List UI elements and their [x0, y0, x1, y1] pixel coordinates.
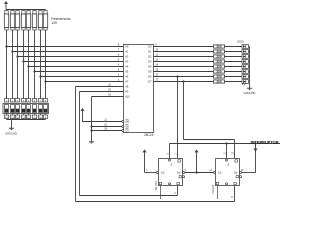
svg-text:D1: D1 — [148, 50, 152, 54]
power terminal VCC (resistor pack supply) — [4, 1, 8, 10]
LED D3 — [242, 55, 249, 59]
wire: net A5 column junction to U1 pin 3 — [33, 68, 123, 73]
resistor R2 220 (LED series) — [214, 50, 225, 54]
flip-flop U2 74LS74 — [154, 153, 185, 199]
svg-text:220: 220 — [216, 55, 221, 59]
wire: net A6 column junction to U1 pin 2 — [39, 73, 123, 78]
svg-text:D3: D3 — [148, 60, 152, 64]
svg-text:A2: A2 — [125, 55, 129, 59]
wire: U2 Sd / U3 Cd to VCC — [185, 150, 214, 174]
wire: DIP switch common rail to ground — [7, 120, 46, 129]
wire: column 3 resistor to DIP switch — [17, 30, 19, 99]
svg-text:OE: OE — [125, 125, 129, 129]
svg-text:220: 220 — [216, 45, 221, 49]
svg-text:D0: D0 — [148, 45, 152, 49]
wire: net D0 U1 pin 9 to R1 — [154, 44, 214, 47]
resistor RN1.5 10K pull-up — [26, 10, 30, 31]
wire: column 6 resistor to DIP switch — [34, 30, 36, 99]
svg-text:LEDS: LEDS — [237, 39, 244, 43]
DIP switch SW1 8-way — [3, 99, 49, 120]
wire: net A9 from U1 pin 22 down to U2 output — [80, 89, 178, 196]
LED D2 — [242, 50, 249, 54]
ground (LED column) — [244, 88, 256, 95]
svg-text:Cd: Cd — [161, 171, 165, 175]
svg-text:CS: CS — [125, 129, 129, 133]
wire: net D7 U1 pin 17 to R8 — [154, 79, 214, 82]
wire: net A0 column junction to U1 pin 8 — [5, 43, 123, 48]
wire: clock net (button line) — [170, 142, 281, 172]
resistor R5 220 (LED series) — [214, 65, 225, 69]
resistor R6 220 (LED series) — [214, 70, 225, 74]
wire: D7 tap to U3 D input — [182, 80, 234, 158]
wire: R2 to LED D2 — [225, 51, 243, 53]
svg-text:220: 220 — [216, 50, 221, 54]
svg-text:GROUND: GROUND — [5, 132, 17, 136]
svg-text:A1: A1 — [125, 50, 129, 54]
svg-text:INTERRUPTOR: INTERRUPTOR — [251, 140, 279, 145]
svg-text:A0: A0 — [125, 45, 129, 49]
wire: net D6 U1 pin 16 to R7 — [154, 74, 214, 77]
wire: net A10/OE/CS to ground — [90, 94, 123, 142]
LED D1 — [242, 45, 249, 49]
svg-text:A8: A8 — [125, 85, 129, 89]
wire: column 4 resistor to DIP switch — [23, 30, 25, 99]
label U1 value 28C16 — [144, 133, 154, 137]
wire: column 8 resistor to DIP switch — [45, 30, 47, 99]
U1 pin name labels A0-A10, D0-D7, WE/OE/CS — [125, 45, 152, 133]
svg-text:74LS74: 74LS74 — [154, 181, 158, 191]
svg-text:A7: A7 — [125, 80, 129, 84]
wire: net A3 column junction to U1 pin 5 — [22, 58, 123, 63]
wire: net A8 from U1 pin 23 down to U3 output — [76, 84, 235, 202]
resistor R3 220 (LED series) — [214, 55, 225, 59]
svg-text:220: 220 — [216, 65, 221, 69]
wire: R8 to LED D8 — [225, 81, 243, 83]
wire: net D2 U1 pin 11 to R3 — [154, 54, 214, 57]
wire: net D5 U1 pin 15 to R6 — [154, 69, 214, 72]
label LEDS — [237, 39, 244, 43]
wire: column 5 resistor to DIP switch — [28, 30, 30, 99]
ground (DIP switch) — [5, 128, 17, 135]
wire: net A2 column junction to U1 pin 6 — [16, 53, 123, 58]
wire: R1 to LED D1 — [225, 46, 243, 48]
svg-text:D2: D2 — [148, 55, 152, 59]
flip-flop U3 74LS74 — [211, 151, 242, 199]
resistor RN1.6 10K pull-up — [32, 10, 36, 31]
signal arrow on Sd2 drop — [253, 149, 257, 152]
resistor RN1.2 10K pull-up — [10, 10, 14, 31]
svg-text:GROUND: GROUND — [244, 91, 256, 95]
LED D6 — [242, 70, 249, 74]
IC U1 28C16 EEPROM body — [124, 45, 154, 133]
svg-text:D5: D5 — [148, 70, 152, 74]
resistor RN1.3 10K pull-up — [15, 10, 19, 31]
wire: net D1 U1 pin 10 to R2 — [154, 49, 214, 52]
wire: net A4 column junction to U1 pin 4 — [27, 63, 123, 68]
svg-text:74LS74: 74LS74 — [211, 184, 215, 194]
svg-text:A5: A5 — [125, 70, 129, 74]
label INTERRUPTOR — [251, 140, 279, 145]
svg-text:A4: A4 — [125, 65, 129, 69]
LED D8 — [242, 80, 249, 84]
wire: LED cathodes common to ground — [249, 47, 250, 89]
svg-text:10K: 10K — [51, 21, 58, 25]
LED arrows (bottom LED) — [242, 83, 246, 86]
svg-text:A3: A3 — [125, 60, 129, 64]
LED D7 — [242, 75, 249, 79]
resistor RN1.8 10K pull-up — [43, 10, 47, 31]
resistor R8 220 (LED series) — [214, 80, 225, 84]
wire: resistor-pack common rail — [6, 9, 46, 11]
wire: net A1 column junction to U1 pin 7 — [11, 48, 123, 53]
svg-text:220: 220 — [216, 60, 221, 64]
wire: column 2 resistor to DIP switch — [12, 30, 14, 99]
wire: column 7 resistor to DIP switch — [40, 30, 42, 99]
svg-text:Sd: Sd — [234, 171, 238, 175]
resistor RN1.4 10K pull-up — [21, 10, 25, 31]
resistor R4 220 (LED series) — [214, 60, 225, 64]
svg-text:28C16: 28C16 — [144, 133, 154, 137]
resistor R1 220 (LED series) — [214, 45, 225, 49]
svg-text:220: 220 — [216, 70, 221, 74]
svg-text:220: 220 — [216, 75, 221, 79]
wire: R3 to LED D3 — [225, 56, 243, 58]
wire: net D3 U1 pin 13 to R4 — [154, 59, 214, 62]
resistor R7 220 (LED series) — [214, 75, 225, 79]
svg-text:A10: A10 — [125, 95, 130, 99]
wire: D6 tap to U2 D input — [176, 75, 178, 158]
power terminal VCC (WE pull-up) — [80, 108, 123, 122]
svg-text:D7: D7 — [148, 80, 152, 84]
wire: R5 to LED D5 — [225, 66, 243, 68]
label Resistencias 10K — [51, 17, 71, 25]
wire: column 1 resistor to DIP switch — [6, 30, 8, 99]
svg-text:A6: A6 — [125, 75, 129, 79]
svg-text:D6: D6 — [148, 75, 152, 79]
svg-text:Sd: Sd — [177, 171, 181, 175]
wire: R7 to LED D7 — [225, 76, 243, 78]
ground (A10/OE/CS net) — [89, 142, 94, 144]
LED D5 — [242, 65, 249, 69]
wire: R4 to LED D4 — [225, 61, 243, 63]
wire: U2 Cd to VCC — [142, 150, 156, 173]
svg-text:D4: D4 — [148, 65, 152, 69]
svg-text:220: 220 — [216, 80, 221, 84]
svg-text:WE: WE — [125, 120, 129, 124]
wire: R6 to LED D6 — [225, 71, 243, 73]
resistor RN1.1 10K pull-up — [4, 10, 8, 31]
U1 active-low input bubbles WE/OE/CS — [122, 121, 124, 132]
svg-text:A9: A9 — [125, 90, 129, 94]
wire: net A7 column junction to U1 pin 1 — [44, 78, 123, 83]
resistor RN1.7 10K pull-up — [38, 10, 42, 31]
wire: net D4 U1 pin 14 to R5 — [154, 64, 214, 67]
wire: U3 Sd to button line — [241, 169, 256, 173]
LED D4 — [242, 60, 249, 64]
svg-text:Cd: Cd — [218, 171, 222, 175]
